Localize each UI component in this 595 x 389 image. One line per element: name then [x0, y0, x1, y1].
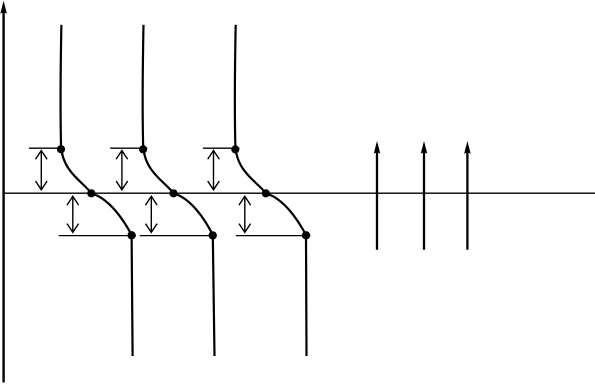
double arrow curve2 below axis — [146, 196, 158, 232]
dot curve1 axis — [87, 189, 95, 197]
solution curve 2 — [143, 25, 215, 356]
direction arrow 2 (up) — [421, 141, 428, 250]
solution curve 3 — [235, 25, 307, 356]
dot curve1 lower — [127, 231, 135, 239]
direction arrow 1 (up) — [374, 141, 381, 250]
double arrow curve1 above axis — [36, 151, 48, 190]
solution curve 1 — [61, 25, 133, 356]
dot curve2 upper — [139, 145, 147, 153]
direction arrow 3 (up) — [464, 141, 471, 250]
upper level tick 2 — [110, 147, 147, 149]
double arrow curve2 above axis — [116, 151, 128, 190]
upper level tick 3 — [203, 147, 240, 149]
dot curve2 lower — [209, 231, 217, 239]
x-axis — [2, 192, 595, 194]
lower level tick 1 — [59, 235, 136, 237]
upper level tick 1 — [29, 147, 65, 149]
y-axis — [0, 1, 7, 383]
dot curve3 lower — [302, 231, 310, 239]
double arrow curve3 above axis — [208, 151, 220, 190]
dot curve3 upper — [231, 145, 239, 153]
lower level tick 3 — [236, 235, 310, 237]
dot curve3 axis — [262, 189, 270, 197]
lower level tick 2 — [140, 235, 217, 237]
double arrow curve1 below axis — [67, 196, 79, 232]
dot curve1 upper — [57, 145, 65, 153]
dot curve2 axis — [169, 189, 177, 197]
double arrow curve3 below axis — [239, 196, 251, 232]
